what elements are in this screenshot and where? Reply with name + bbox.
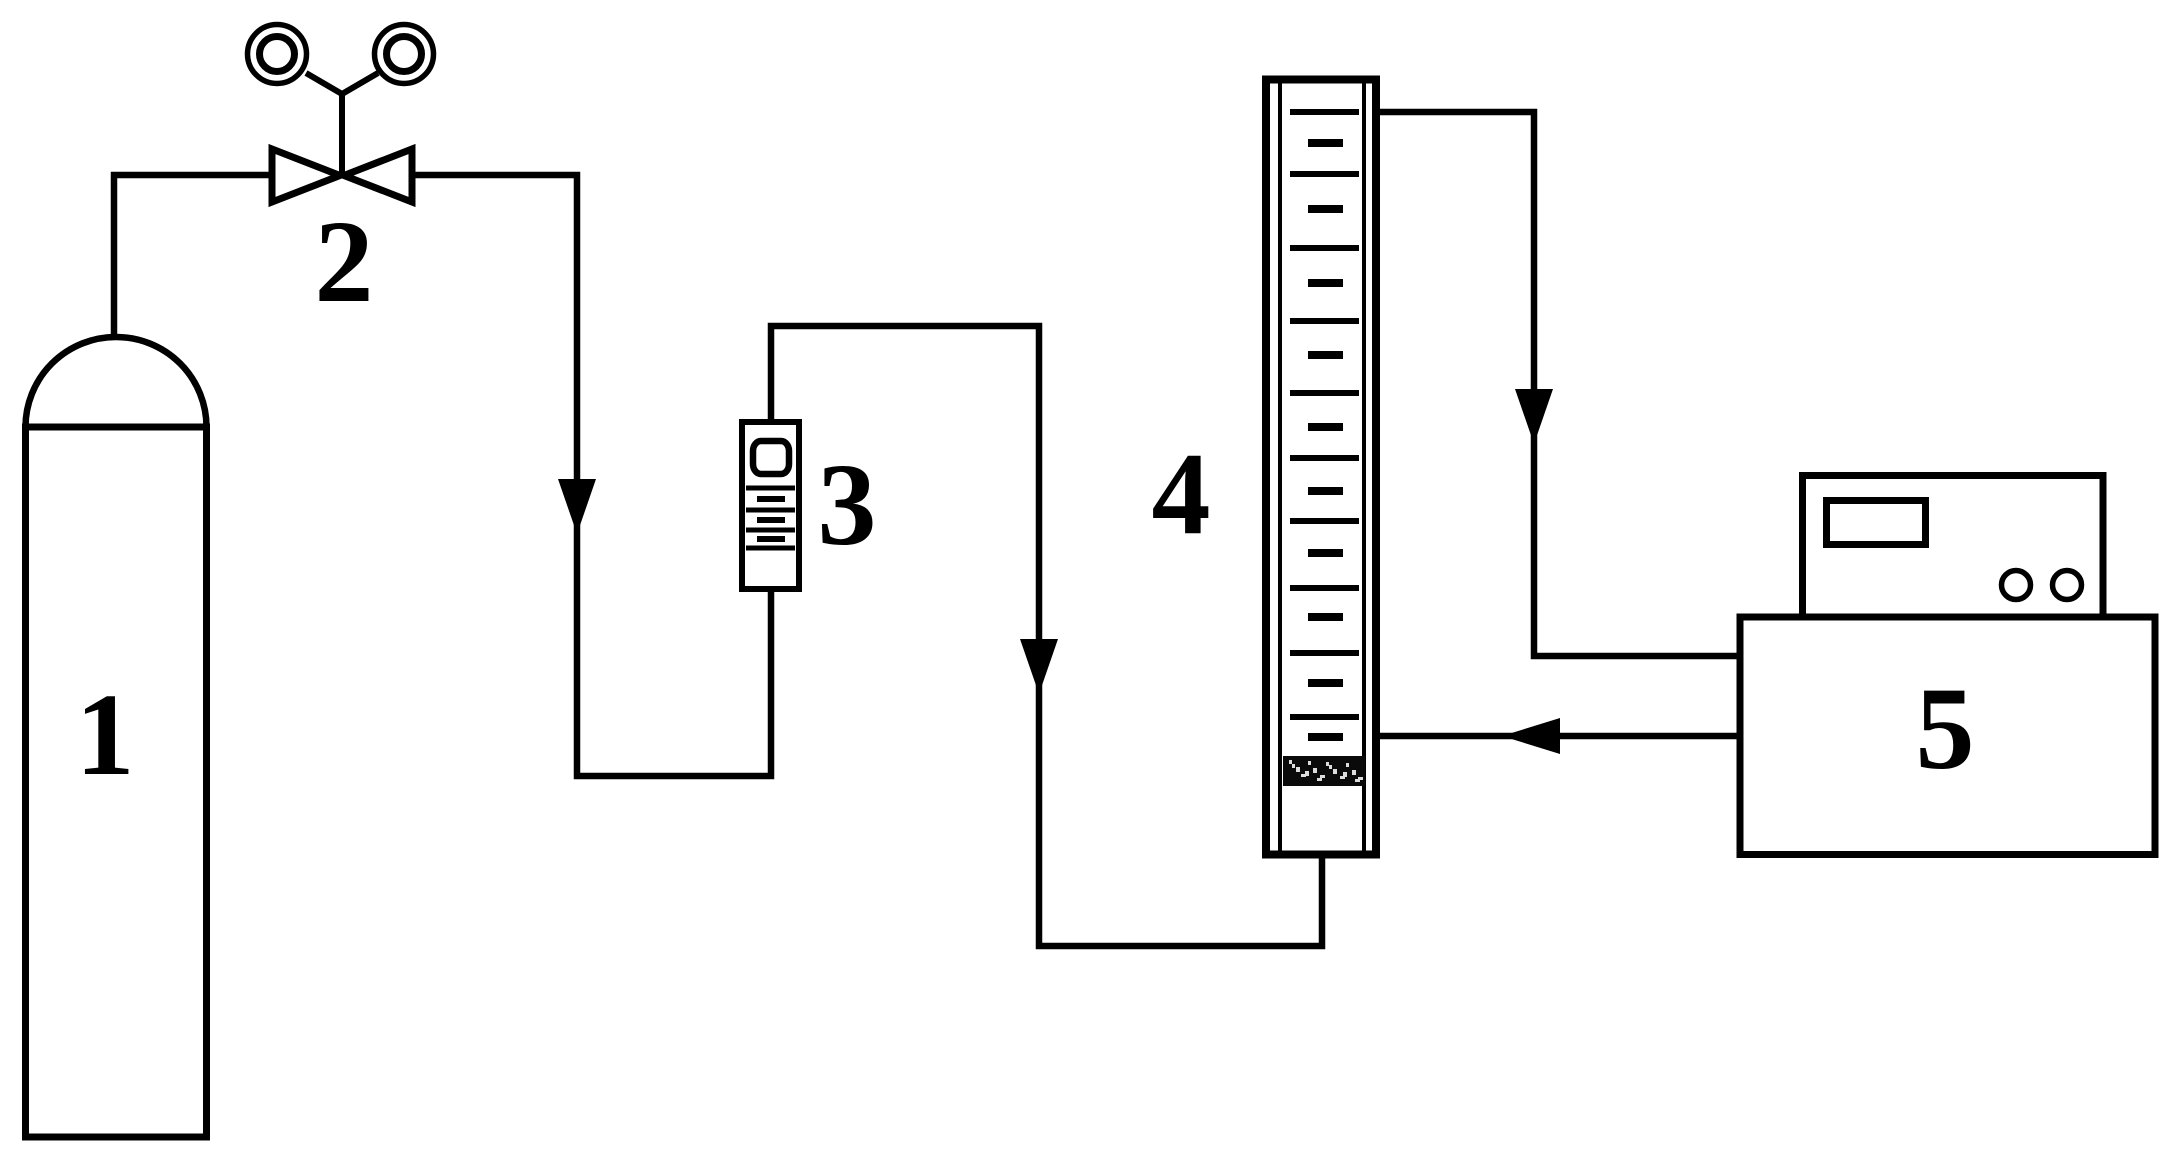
svg-text:5: 5 <box>1916 663 1975 794</box>
short graduation lines <box>1308 143 1343 737</box>
long graduation lines <box>1290 112 1359 717</box>
wire cylinder to valve <box>114 175 276 345</box>
wire column top to analyzer <box>1379 112 1745 656</box>
flow meter 3 <box>742 422 799 589</box>
svg-text:3: 3 <box>818 439 877 570</box>
packed bed band <box>1283 756 1365 786</box>
arrow down on wire to analyzer <box>1515 389 1553 444</box>
analyzer display unit <box>1803 476 2104 618</box>
svg-text:1: 1 <box>76 669 135 800</box>
absorption column 4 <box>1266 80 1376 855</box>
svg-text:2: 2 <box>315 196 374 327</box>
wire valve to flow meter <box>408 175 771 776</box>
arrow left on return wire <box>1502 718 1560 754</box>
wire flow meter to column bottom <box>771 326 1322 946</box>
svg-text:4: 4 <box>1152 428 1211 559</box>
analyzer main body 5 <box>1740 617 2155 855</box>
arrow down on wire before column <box>1020 639 1058 694</box>
gas cylinder 1 <box>26 337 207 1137</box>
arrow down on wire after valve <box>558 479 596 534</box>
pressure regulator valve 2 <box>248 25 434 203</box>
wire analyzer to column (return) <box>1378 733 1745 740</box>
